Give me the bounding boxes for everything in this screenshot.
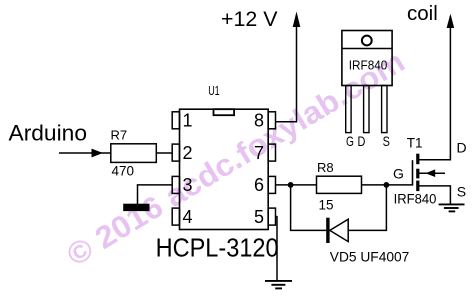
pin 6 box (268, 176, 275, 193)
svg-text:T1: T1 (407, 135, 423, 150)
svg-text:4: 4 (183, 207, 193, 227)
svg-text:3: 3 (183, 175, 193, 195)
wire pin 8 to +12V rail (275, 15, 297, 122)
transistor T1 gate line (412, 160, 414, 185)
wire diode branch right (348, 185, 386, 231)
diode VD5 cathode bar (326, 218, 329, 243)
package leg G (346, 86, 351, 133)
power +12 V arrowhead (293, 12, 301, 28)
node junction at pin6/diode branch (288, 182, 294, 188)
wire R7 to pin 2 (156, 152, 172, 154)
pin 5 box (268, 208, 275, 225)
ground (pin 5) (265, 281, 292, 289)
svg-text:6: 6 (254, 175, 264, 195)
svg-text:Arduino: Arduino (9, 121, 88, 146)
wire drain to coil (419, 16, 450, 160)
package IRF840 TO-220 outline (342, 31, 392, 86)
pin 4 box (172, 208, 179, 225)
coil arrowhead (447, 14, 455, 28)
svg-text:R7: R7 (111, 128, 128, 143)
svg-text:G: G (393, 166, 404, 182)
diode VD5 triangle (330, 219, 348, 241)
pin 1 box (172, 112, 179, 129)
svg-text:S: S (383, 133, 390, 149)
package leg D (364, 86, 369, 133)
ground bar (input side) (123, 204, 149, 211)
transistor T1 channel bar bottom (416, 181, 419, 192)
resistor R7 (111, 144, 157, 163)
svg-text:VD5 UF4007: VD5 UF4007 (330, 248, 410, 264)
resistor R8 (317, 176, 362, 193)
svg-text:2: 2 (183, 143, 193, 163)
svg-text:8: 8 (254, 111, 264, 131)
pin 2 box (172, 144, 179, 161)
svg-text:IRF840: IRF840 (394, 191, 437, 206)
svg-text:470: 470 (112, 163, 135, 178)
IC notch (214, 109, 235, 115)
svg-text:IRF840: IRF840 (349, 59, 388, 73)
node junction at gate/diode branch (384, 182, 390, 188)
transistor T1 body arrow (419, 172, 445, 174)
wire pin 5 to ground (276, 217, 278, 281)
pin 7 box (268, 144, 275, 161)
svg-text:7: 7 (254, 143, 264, 163)
wire diode branch left (291, 185, 327, 231)
transistor T1 channel bar top (416, 154, 419, 165)
wire input arrow to R7 (59, 152, 111, 154)
svg-text:+12 V: +12 V (221, 8, 278, 31)
wire R8 to gate (362, 184, 413, 186)
package hole (362, 36, 372, 46)
wire source to ground (419, 186, 450, 204)
svg-text:15: 15 (319, 198, 334, 213)
package leg S (382, 86, 387, 133)
svg-text:D: D (457, 140, 467, 156)
svg-text:R8: R8 (317, 160, 334, 175)
svg-text:coil: coil (407, 2, 438, 25)
svg-text:5: 5 (254, 207, 264, 227)
wire pin 3 to common bar (138, 185, 173, 204)
wire pin 6 to R8 (276, 184, 317, 186)
pin 8 box (268, 112, 275, 129)
svg-text:U1: U1 (208, 83, 220, 98)
package tab divider (342, 48, 392, 50)
ground (source) (439, 204, 465, 211)
svg-text:S: S (457, 184, 466, 200)
pin 3 box (172, 176, 179, 193)
svg-text:D: D (358, 133, 366, 149)
svg-text:G: G (346, 133, 354, 149)
IC U1 HCPL-3120 body (180, 109, 269, 229)
svg-text:HCPL-3120: HCPL-3120 (156, 232, 279, 262)
svg-text:1: 1 (183, 111, 193, 131)
transistor T1 channel bar middle (416, 169, 419, 179)
